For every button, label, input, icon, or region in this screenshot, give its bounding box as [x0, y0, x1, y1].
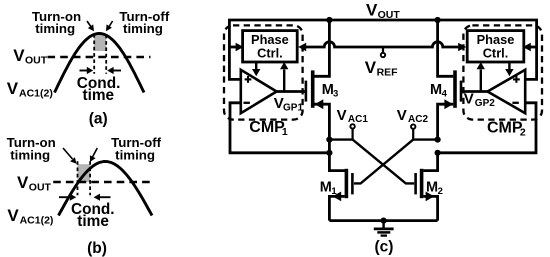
svg-text:2: 2 [438, 186, 443, 197]
svg-text:OUT: OUT [378, 9, 401, 21]
node VGP1 label [274, 95, 304, 113]
label (c) [375, 239, 394, 256]
waveform (b) turn-off pointer arrow [90, 148, 97, 162]
waveform (b) conduction-time shaded region [78, 164, 91, 182]
junction M4 drain on VOUT rail [435, 17, 441, 23]
waveform (b) VOUT level dashed line [53, 181, 150, 184]
junction CMP2 sense tap [435, 150, 441, 156]
node VGP2 label [464, 90, 495, 108]
waveform (a) turn-off timing label [119, 9, 170, 36]
svg-text:V: V [17, 173, 29, 192]
wire arrow Phase Ctrl U2 to op-amp A2 [505, 62, 513, 76]
label CMP2 [487, 119, 526, 138]
node VAC1(2) label (a) [7, 79, 53, 100]
comparator CMP2 dashed boundary [463, 25, 542, 119]
label (b) [87, 240, 107, 257]
waveform (a) turn-on timing label [32, 9, 81, 36]
terminal VREF [381, 47, 385, 57]
svg-text:time: time [77, 213, 109, 230]
wire arrow VOUT feed into Phase Ctrl U1 [229, 43, 243, 52]
waveform (a) VOUT level dashed line [48, 56, 151, 59]
svg-text:Ctrl.: Ctrl. [483, 45, 509, 60]
svg-text:GP2: GP2 [475, 98, 495, 109]
waveform (b) cond. time left arrow [59, 194, 76, 201]
node VAC2 label [397, 107, 429, 125]
svg-text:V: V [337, 107, 347, 124]
waveform (a) cond. time left arrow [80, 67, 94, 74]
label M3 [322, 82, 338, 99]
label CMP1 [249, 119, 288, 138]
wire CMP2 minus input sense of VAC2 [438, 103, 536, 153]
block Phase Ctrl U1 [243, 31, 298, 62]
node VOUT label (b) [17, 173, 52, 194]
node VREF label [365, 58, 398, 79]
comparator CMP1 dashed boundary [224, 25, 303, 119]
svg-text:CMP: CMP [487, 119, 523, 136]
wire VAC1 node stub [329, 138, 352, 140]
wire left rail VAC1 to M1 drain [329, 140, 344, 171]
label M4 [430, 82, 448, 99]
svg-text:3: 3 [333, 89, 338, 100]
svg-text:time: time [82, 87, 114, 104]
wire arrow op-amp A1 output feedback to Phase Ctrl U1 [280, 62, 288, 92]
label M1 [320, 179, 338, 196]
op-amp A1 (CMP1) [241, 70, 277, 113]
waveform (b) turn-on timing dashed marker [77, 161, 79, 195]
svg-text:V: V [464, 90, 474, 107]
svg-text:AC2: AC2 [408, 114, 428, 125]
wire VGP1 op-amp A1 output to M3 gate [277, 90, 305, 93]
label (a) [89, 110, 108, 127]
node VOUT label [366, 1, 400, 22]
junction VAC2 node [435, 137, 441, 143]
svg-text:(c): (c) [375, 239, 394, 256]
junction CMP1 sense tap [326, 150, 332, 156]
wire VGP2 op-amp A2 output to M4 gate [462, 90, 488, 93]
terminal VAC2 [411, 124, 415, 139]
node VOUT label (a) [13, 46, 48, 67]
svg-text:AC1(2): AC1(2) [19, 88, 53, 100]
waveform (b) turn-off timing dashed marker [89, 161, 91, 195]
block Phase Ctrl U2 [467, 31, 524, 62]
svg-text:AC1(2): AC1(2) [20, 215, 54, 227]
wire arrow op-amp A2 output feedback to Phase Ctrl U2 [477, 62, 485, 92]
wire VAC2 node stub [413, 138, 437, 140]
waveform (a) turn-off timing dashed marker [105, 35, 107, 74]
waveform (a) turn-on timing dashed marker [93, 34, 95, 74]
svg-text:timing: timing [123, 21, 163, 36]
svg-text:2: 2 [520, 126, 526, 138]
transistor M2 [416, 153, 438, 221]
wire cross-couple VAC1 to M2 gate [353, 140, 415, 184]
svg-text:M: M [430, 82, 442, 98]
transistor M4 [438, 20, 461, 140]
svg-text:V: V [365, 58, 377, 77]
junction M3 drain on VOUT rail [326, 17, 332, 23]
waveform (b) turn-on pointer arrow [63, 148, 77, 164]
wire VREF distribution line with crossover hops [298, 42, 466, 52]
wire CMP1 minus input sense of VAC1 [230, 103, 329, 153]
junction VAC1 node [326, 137, 332, 143]
waveform (b) turn-off timing label [111, 135, 162, 162]
waveform (a) turn-off pointer arrow [106, 21, 113, 31]
waveform (b) AC voltage curve [59, 162, 153, 216]
svg-text:Ctrl.: Ctrl. [257, 45, 283, 60]
svg-text:1: 1 [282, 126, 288, 138]
svg-text:1: 1 [331, 186, 337, 197]
svg-text:OUT: OUT [29, 182, 52, 194]
junction ground tap [381, 218, 387, 224]
wire source rail to ground [329, 219, 437, 222]
waveform (a) cond. time label [77, 75, 121, 104]
waveform (a) conduction-time shaded region [94, 34, 106, 52]
svg-text:V: V [7, 206, 19, 225]
waveform (b) cond. time label [71, 201, 115, 230]
label M2 [426, 179, 443, 196]
wire cross-couple VAC2 to M1 gate [354, 140, 413, 184]
svg-text:V: V [13, 46, 25, 65]
waveform (a) turn-on pointer arrow [87, 21, 94, 31]
transistor M1 [329, 169, 352, 221]
svg-text:V: V [397, 107, 407, 124]
waveform (b) turn-on timing label [7, 135, 56, 162]
node VAC1 label [337, 107, 369, 125]
svg-text:M: M [426, 179, 438, 195]
svg-text:AC1: AC1 [348, 114, 368, 125]
svg-text:GP1: GP1 [283, 103, 303, 114]
svg-text:timing: timing [115, 147, 155, 162]
wire arrow Phase Ctrl U1 to op-amp A1 [252, 62, 260, 76]
svg-text:OUT: OUT [25, 55, 48, 67]
wire VOUT rail with feeds to CMP1 and CMP2 plus inputs [229, 20, 536, 79]
svg-text:CMP: CMP [249, 119, 285, 136]
svg-text:4: 4 [442, 89, 448, 100]
terminal VAC1 [350, 124, 354, 139]
waveform (a) cond. time right arrow [107, 67, 121, 74]
wire arrow VOUT feed into Phase Ctrl U2 [523, 43, 537, 52]
svg-text:timing: timing [35, 21, 75, 36]
svg-text:timing: timing [10, 147, 50, 162]
svg-text:REF: REF [377, 67, 399, 79]
svg-text:(b): (b) [87, 240, 107, 257]
ground [374, 221, 394, 236]
svg-text:(a): (a) [89, 110, 108, 127]
waveform (a) AC voltage curve [55, 34, 145, 93]
svg-text:M: M [320, 179, 332, 195]
svg-text:V: V [366, 1, 378, 20]
op-amp A2 (CMP2) [488, 70, 526, 113]
node VAC1(2) label (b) [7, 206, 53, 227]
transistor M3 [306, 20, 330, 140]
svg-text:V: V [7, 79, 19, 98]
waveform (b) cond. time right arrow [94, 194, 111, 201]
